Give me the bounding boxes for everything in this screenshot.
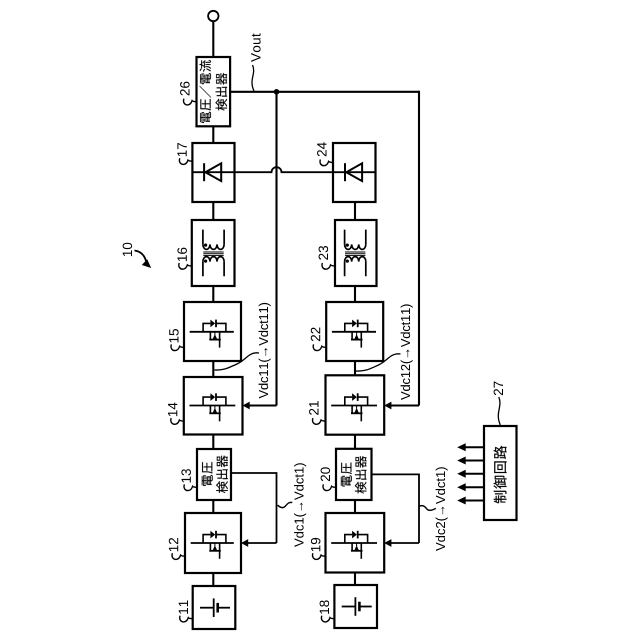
switch block 19	[326, 513, 385, 573]
label 電圧/電流検出器 in block 26	[199, 60, 211, 123]
transistor Q22 symbol	[332, 331, 376, 333]
switch block 12	[185, 513, 241, 573]
transistor Q14 symbol	[190, 405, 236, 407]
wire	[354, 435, 356, 448]
voltage detector U20	[336, 449, 372, 500]
battery B11 symbol	[200, 607, 214, 609]
voltage detector U13	[197, 449, 231, 500]
wire	[212, 573, 214, 586]
wire	[354, 500, 356, 513]
battery block 11	[193, 586, 236, 629]
reference label 16	[177, 248, 187, 261]
control signal arrows from block 27	[464, 446, 485, 448]
net label Vdc11(→Vdct11)	[259, 303, 271, 399]
wire	[212, 126, 214, 143]
net label Vout	[251, 33, 260, 62]
wire right feedback rail	[418, 91, 420, 406]
wire	[354, 573, 356, 586]
wire	[354, 361, 356, 375]
diode block 24	[333, 143, 376, 202]
wire	[354, 202, 356, 220]
reference label 11	[179, 600, 188, 613]
wire connector between diode 17 and diode 24 outputs with hop over rail	[235, 167, 334, 172]
reference label 20	[321, 467, 331, 481]
wire arrow into block 19	[389, 542, 419, 544]
diode D24 symbol	[333, 171, 376, 173]
reference label 17	[177, 143, 186, 156]
label 制御回路 in block 27	[494, 446, 507, 503]
wire Vdc2 sense from block 20 down into block 19	[372, 474, 420, 543]
reference label 26	[180, 82, 190, 96]
leader curve to node between 15 and 14	[214, 353, 259, 370]
reference label 21	[309, 401, 318, 415]
reference label 22	[311, 327, 320, 341]
wire	[212, 202, 214, 220]
reference label 19	[311, 538, 321, 551]
transformer block 16	[192, 220, 235, 286]
wire	[212, 435, 214, 450]
wire arrow into block 21	[389, 405, 419, 407]
wire	[212, 361, 214, 377]
label 電圧検出器 in block 20	[341, 463, 352, 487]
voltage/current detector U26	[197, 57, 231, 126]
label 電圧検出器 in block 13	[202, 462, 213, 486]
output terminal	[208, 11, 218, 21]
switch block 15	[184, 302, 241, 361]
reference label 15	[169, 329, 178, 342]
battery B18 symbol	[342, 606, 356, 608]
net label Vdc1(→Vdct1)	[294, 463, 306, 547]
diode block 17	[192, 143, 234, 202]
transistor Q15 symbol	[190, 331, 234, 333]
wire left feedback rail	[275, 92, 277, 406]
net label Vdc12(→Vdct11)	[401, 304, 413, 400]
control circuit 27	[484, 426, 517, 520]
battery block 18	[334, 585, 377, 628]
transistor Q21 symbol	[331, 405, 377, 407]
diode D17 symbol	[192, 171, 234, 173]
transistor Q12 symbol	[191, 542, 234, 544]
wire	[212, 286, 214, 302]
transformer block 23	[335, 220, 377, 286]
wire Vout bus from block 26 to right rail	[230, 91, 419, 93]
reference label 24	[317, 142, 326, 156]
leader curve to node between 22 and 21	[356, 354, 401, 371]
transistor Q19 symbol	[331, 542, 377, 544]
net label Vdc2(→Vdct1)	[436, 467, 448, 551]
switch block 22	[326, 302, 383, 361]
reference label 27	[494, 381, 503, 395]
switch block 21	[326, 375, 385, 434]
reference label 10 with arrow	[123, 243, 133, 256]
transformer T16 symbol	[203, 230, 224, 245]
wire arrow into block 12	[246, 542, 276, 544]
node junction dot on Vout bus	[274, 89, 280, 95]
switch block 14	[184, 377, 243, 435]
reference label 23	[319, 246, 329, 260]
reference label 18	[320, 600, 330, 613]
wire Vdc1 sense from block 13 down into block 12	[231, 473, 277, 543]
wire	[354, 286, 356, 302]
reference label 13	[181, 469, 191, 482]
transformer T23 symbol	[345, 230, 366, 245]
wire arrow into block 14	[248, 405, 277, 407]
wire output terminal lead	[212, 21, 214, 57]
reference label 12	[169, 538, 178, 551]
reference label 14	[168, 403, 177, 417]
wire	[212, 500, 214, 513]
